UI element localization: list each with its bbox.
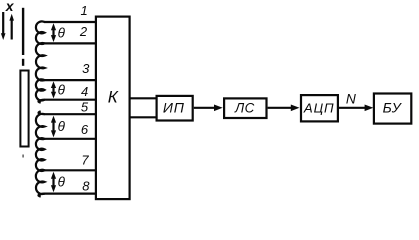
svg-text:8: 8 xyxy=(82,178,90,193)
svg-text:ЛС: ЛС xyxy=(234,101,255,116)
svg-text:N: N xyxy=(346,92,356,107)
svg-text:БУ: БУ xyxy=(383,100,403,116)
svg-text:θ: θ xyxy=(58,175,66,190)
svg-text:θ: θ xyxy=(58,25,66,40)
svg-text:θ: θ xyxy=(58,119,66,134)
svg-text:ИП: ИП xyxy=(163,100,185,116)
svg-text:2: 2 xyxy=(79,24,88,39)
svg-text:x: x xyxy=(5,0,15,14)
svg-text:АЦП: АЦП xyxy=(303,100,335,115)
svg-text:θ: θ xyxy=(58,83,66,98)
svg-text:6: 6 xyxy=(81,122,89,137)
svg-text:3: 3 xyxy=(82,61,90,76)
svg-text:4: 4 xyxy=(81,84,88,99)
svg-text:5: 5 xyxy=(81,99,89,114)
svg-text:7: 7 xyxy=(81,153,89,168)
svg-text:1: 1 xyxy=(80,3,87,18)
svg-text:К: К xyxy=(108,88,119,107)
